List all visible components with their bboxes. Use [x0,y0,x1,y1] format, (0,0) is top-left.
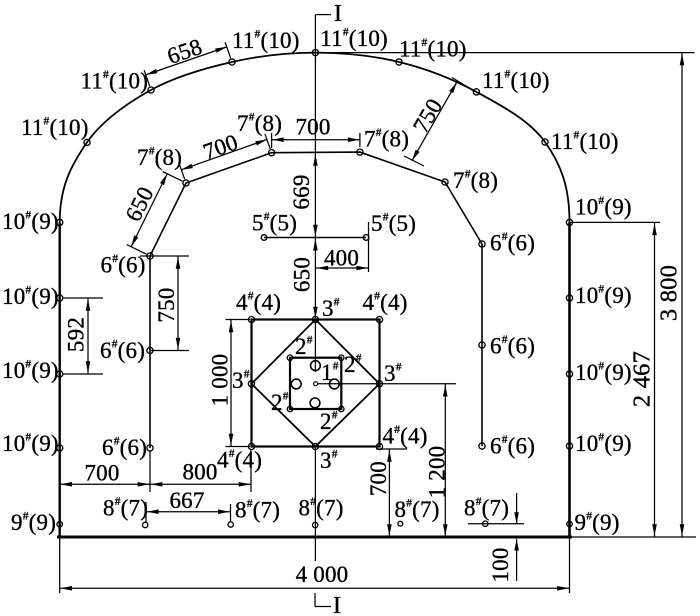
svg-text:6#(6): 6#(6) [102,435,147,460]
svg-text:11#(10): 11#(10) [21,115,89,140]
svg-text:4#(4): 4#(4) [383,424,428,449]
svg-text:5#(5): 5#(5) [371,211,416,236]
svg-text:10#(9): 10#(9) [575,283,632,308]
svg-text:6#(6): 6#(6) [101,253,146,278]
svg-text:400: 400 [324,246,359,271]
svg-text:667: 667 [169,488,204,513]
svg-text:8#(7): 8#(7) [395,497,440,522]
svg-text:10#(9): 10#(9) [575,195,632,220]
svg-text:800: 800 [182,460,217,485]
svg-text:10#(9): 10#(9) [575,360,632,385]
svg-text:700: 700 [366,461,391,496]
svg-text:11#(10): 11#(10) [81,69,149,94]
svg-text:11#(10): 11#(10) [232,28,300,53]
svg-text:3#: 3# [322,296,340,321]
svg-text:8#(7): 8#(7) [464,496,509,521]
svg-text:2#: 2# [320,409,338,434]
svg-text:10#(9): 10#(9) [2,358,59,383]
svg-text:10#(9): 10#(9) [2,209,59,234]
svg-text:11#(10): 11#(10) [482,68,550,93]
svg-text:8#(7): 8#(7) [103,496,148,521]
svg-text:1#: 1# [321,360,339,385]
svg-text:10#(9): 10#(9) [575,431,632,456]
svg-text:7#(8): 7#(8) [453,168,498,193]
svg-text:2 467: 2 467 [629,351,656,407]
svg-text:700: 700 [84,461,119,486]
svg-text:650: 650 [120,183,158,226]
svg-text:6#(6): 6#(6) [100,338,145,363]
svg-text:7#(8): 7#(8) [237,111,282,136]
svg-text:2#: 2# [271,390,289,415]
svg-text:10#(9): 10#(9) [2,284,59,309]
svg-text:I: I [333,593,341,616]
svg-text:4 000: 4 000 [296,562,349,587]
svg-text:669: 669 [289,174,314,209]
svg-text:11#(10): 11#(10) [320,26,388,51]
svg-text:3#: 3# [384,361,402,386]
svg-text:4#(4): 4#(4) [236,290,281,315]
svg-text:3#: 3# [232,368,250,393]
svg-text:11#(10): 11#(10) [399,37,467,62]
svg-text:I: I [334,1,342,27]
svg-text:1 200: 1 200 [425,446,450,499]
svg-text:10#(9): 10#(9) [2,431,59,456]
svg-text:750: 750 [408,94,447,137]
svg-text:700: 700 [295,115,330,140]
svg-text:4#(4): 4#(4) [363,290,408,315]
svg-text:8#(7): 8#(7) [235,498,280,523]
svg-text:6#(6): 6#(6) [490,434,535,459]
svg-text:9#(9): 9#(9) [11,510,56,535]
svg-text:1 000: 1 000 [208,354,233,407]
svg-text:7#(8): 7#(8) [364,127,409,152]
svg-text:2#: 2# [295,334,313,359]
svg-text:4#(4): 4#(4) [217,448,262,473]
svg-text:6#(6): 6#(6) [490,334,535,359]
svg-text:7#(8): 7#(8) [137,145,182,170]
svg-text:750: 750 [154,287,179,322]
svg-text:6#(6): 6#(6) [490,231,535,256]
svg-text:592: 592 [64,317,89,352]
svg-text:658: 658 [164,34,205,69]
svg-text:3#: 3# [320,448,338,473]
svg-text:650: 650 [290,257,315,292]
svg-text:100: 100 [488,547,513,582]
svg-text:5#(5): 5#(5) [252,211,297,236]
svg-text:11#(10): 11#(10) [551,129,619,154]
svg-text:3 800: 3 800 [656,265,683,321]
svg-text:9#(9): 9#(9) [575,510,620,535]
svg-text:700: 700 [200,129,241,164]
svg-text:8#(7): 8#(7) [299,496,344,521]
